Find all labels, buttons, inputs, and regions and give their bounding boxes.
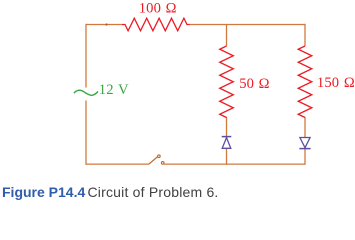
switch SW1 fixed contact circle — [161, 162, 164, 165]
diode D2 triangle (pointing down) — [300, 138, 310, 148]
svg-text:50 Ω: 50 Ω — [239, 76, 270, 92]
wire top-left horizontal segment — [86, 24, 122, 26]
wire right branch lower segment through diode — [304, 117, 306, 165]
wire middle branch top stub — [226, 25, 228, 47]
wire middle branch lower segment through diode — [226, 117, 228, 165]
svg-text:100 Ω: 100 Ω — [139, 1, 177, 17]
svg-text:Figure P14.4: Figure P14.4 — [2, 184, 85, 200]
svg-text:Circuit of Problem 6.: Circuit of Problem 6. — [88, 184, 219, 200]
wire left vertical below source — [85, 101, 87, 165]
switch SW1 arm-end circle — [158, 155, 161, 158]
resistor R3 150ohm zigzag — [298, 46, 312, 118]
wire right branch top stub — [304, 24, 306, 46]
node junction dot on top wire — [105, 23, 107, 25]
AC source V1 sine symbol — [74, 90, 98, 95]
resistor R2 50ohm zigzag — [220, 46, 234, 118]
wire top-right horizontal segment — [189, 24, 305, 26]
svg-text:150 Ω: 150 Ω — [317, 75, 355, 91]
diode D1 cathode bar — [222, 136, 232, 138]
diode D2 cathode bar — [299, 148, 310, 150]
svg-text:12 V: 12 V — [99, 82, 129, 98]
diode D1 triangle (pointing up) — [222, 138, 231, 149]
wire bottom-left horizontal segment — [86, 163, 149, 165]
wire left vertical above source — [85, 24, 87, 88]
resistor R1 100ohm zigzag — [122, 18, 190, 31]
wire bottom-right horizontal segment — [164, 163, 305, 165]
switch SW1 arm — [149, 157, 158, 165]
